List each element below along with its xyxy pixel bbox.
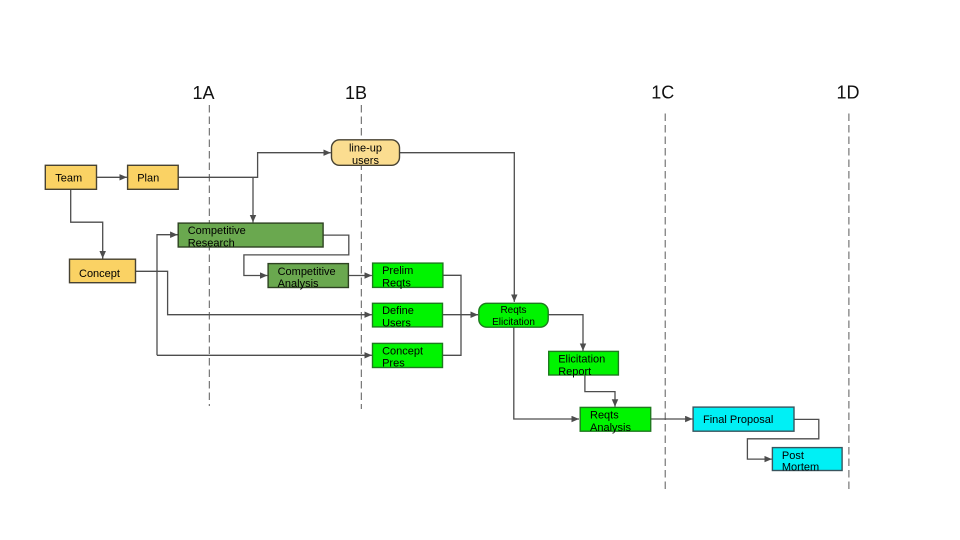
- svg-text:1D: 1D: [836, 83, 859, 103]
- svg-text:Mortem: Mortem: [782, 461, 819, 473]
- box Post Mortem: [772, 448, 842, 474]
- svg-text:Elicitation: Elicitation: [492, 317, 535, 328]
- box Elicitation Report: [549, 351, 619, 377]
- box Reqts Analysis: [580, 407, 651, 433]
- wire CompetitiveAnalysis-PrelimReqts: [348, 275, 372, 277]
- svg-text:Reqts: Reqts: [382, 277, 411, 289]
- svg-text:Prelim: Prelim: [382, 265, 413, 277]
- box Competitive Analysis: [268, 264, 348, 290]
- box Plan: [128, 165, 179, 189]
- box Final Proposal: [693, 407, 794, 431]
- svg-text:Post: Post: [782, 450, 804, 462]
- svg-text:Reqts: Reqts: [500, 305, 526, 316]
- svg-text:Research: Research: [188, 237, 235, 249]
- svg-text:Team: Team: [55, 172, 82, 184]
- box line-up users: [332, 140, 400, 167]
- svg-text:Analysis: Analysis: [590, 422, 631, 434]
- wire ElicitationReport-ReqtsAnalysis: [585, 375, 615, 407]
- svg-text:line-up: line-up: [349, 143, 382, 155]
- wire ConceptPres-merge: [443, 315, 461, 356]
- wire Plan-lineupusers: [178, 153, 331, 178]
- svg-text:1C: 1C: [651, 83, 674, 103]
- wire lineupusers-ReqtsElicitation: [400, 153, 515, 302]
- wire ReqtsElicitation-ReqtsAnalysis: [514, 327, 579, 419]
- box Concept: [70, 259, 136, 283]
- wire CompetitiveResearch-CompetitiveAnalysis: [244, 235, 349, 275]
- svg-text:Users: Users: [382, 317, 411, 329]
- wire ReqtsAnalysis-FinalProposal: [651, 418, 693, 420]
- box Prelim Reqts: [373, 263, 443, 289]
- svg-text:Reqts: Reqts: [590, 410, 619, 422]
- wire Concept-CompetitiveResearch: [157, 235, 178, 356]
- wire Plan-CompetitiveResearch: [252, 177, 254, 222]
- phase line 1A: [192, 83, 214, 406]
- wire FinalProposal-PostMortem: [747, 419, 818, 459]
- svg-text:Pres: Pres: [382, 358, 405, 370]
- svg-text:1B: 1B: [345, 83, 367, 103]
- wire Concept-DefineUsers: [136, 271, 372, 314]
- wire Team-Concept: [71, 189, 103, 258]
- svg-text:Plan: Plan: [137, 172, 159, 184]
- wire PrelimReqts-merge: [443, 275, 461, 314]
- svg-text:Define: Define: [382, 305, 414, 317]
- svg-text:users: users: [352, 155, 379, 167]
- svg-text:Competitive: Competitive: [278, 266, 336, 278]
- wire ReqtsElicitation-ElicitationReport: [548, 315, 583, 351]
- svg-text:Report: Report: [558, 366, 591, 378]
- box Team: [45, 165, 96, 189]
- svg-text:Competitive: Competitive: [188, 225, 246, 237]
- svg-text:1A: 1A: [192, 83, 214, 103]
- svg-text:Elicitation: Elicitation: [558, 354, 605, 366]
- svg-text:Final Proposal: Final Proposal: [703, 414, 773, 426]
- box Define Users: [373, 303, 443, 329]
- box Competitive Research: [178, 223, 323, 249]
- wire Team-Plan: [97, 176, 127, 178]
- svg-text:Concept: Concept: [79, 268, 120, 280]
- box Concept Pres: [373, 343, 443, 369]
- svg-text:Analysis: Analysis: [278, 278, 319, 290]
- phase line 1C: [651, 83, 674, 493]
- wire DefineUsers-ReqtsElicitation: [443, 314, 478, 316]
- svg-text:Concept: Concept: [382, 345, 423, 357]
- wire Concept-ConceptPres: [157, 354, 372, 356]
- phase line 1D: [836, 83, 859, 493]
- box Reqts Elicitation: [479, 303, 548, 328]
- phase line 1B: [345, 83, 367, 409]
